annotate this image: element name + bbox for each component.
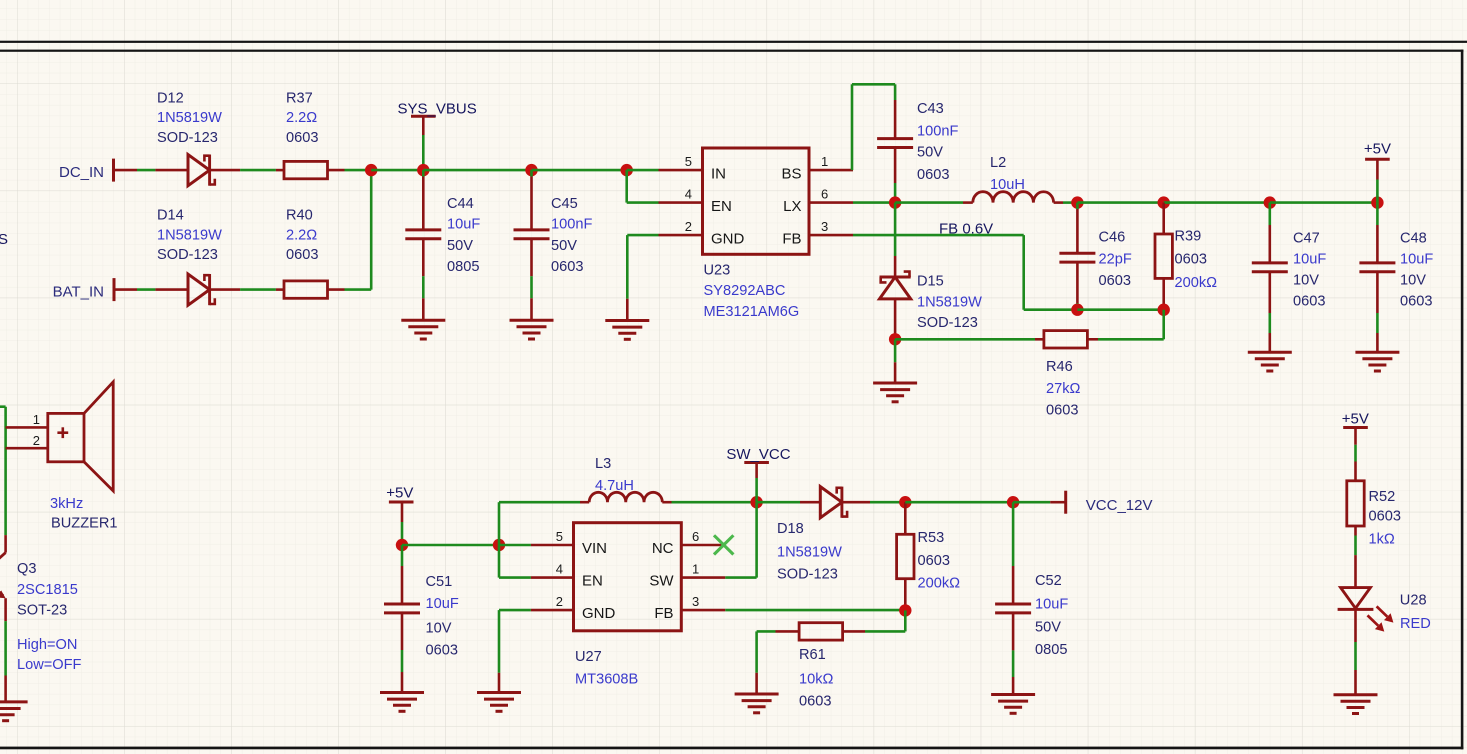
ground xyxy=(380,691,424,694)
svg-text:10uF: 10uF xyxy=(447,216,480,232)
svg-text:GND: GND xyxy=(711,230,745,247)
wire xyxy=(853,201,895,204)
svg-text:C45: C45 xyxy=(551,196,578,212)
svg-text:C51: C51 xyxy=(426,574,453,590)
wire xyxy=(627,169,659,172)
port VCC_12V xyxy=(1050,501,1066,504)
resistor R46 xyxy=(1035,338,1044,341)
svg-text:U27: U27 xyxy=(575,649,602,665)
svg-text:GND: GND xyxy=(582,605,616,622)
resistor R39 xyxy=(1162,203,1165,234)
capacitor C43 xyxy=(894,84,897,100)
svg-text:1N5819W: 1N5819W xyxy=(157,227,222,243)
wire xyxy=(137,288,155,291)
svg-text:0603: 0603 xyxy=(286,247,318,263)
wire xyxy=(895,338,1035,341)
junction xyxy=(1264,196,1276,208)
svg-text:4.7uH: 4.7uH xyxy=(595,478,634,494)
svg-text:SW_VCC: SW_VCC xyxy=(726,446,790,463)
svg-text:C46: C46 xyxy=(1099,230,1126,246)
svg-text:C43: C43 xyxy=(917,101,944,117)
svg-text:0603: 0603 xyxy=(917,167,949,183)
svg-text:1: 1 xyxy=(821,154,828,169)
net flag +5V xyxy=(1365,158,1390,161)
svg-text:10uF: 10uF xyxy=(426,596,459,612)
svg-text:1N5819W: 1N5819W xyxy=(777,544,842,560)
capacitor C46 xyxy=(1076,203,1079,209)
wire xyxy=(625,170,628,203)
svg-text:5: 5 xyxy=(556,529,563,544)
net flag SW_VCC xyxy=(744,461,769,464)
wire xyxy=(423,169,531,172)
svg-text:R61: R61 xyxy=(799,647,826,663)
svg-text:0603: 0603 xyxy=(1175,252,1207,268)
wire xyxy=(725,609,905,612)
svg-text:3: 3 xyxy=(692,594,699,609)
junction xyxy=(750,496,762,508)
capacitor C52 xyxy=(1012,502,1015,566)
svg-text:1N5819W: 1N5819W xyxy=(157,110,222,126)
svg-text:50V: 50V xyxy=(551,238,577,254)
svg-text:SW: SW xyxy=(649,573,674,590)
svg-text:SOD-123: SOD-123 xyxy=(777,567,838,583)
svg-text:6: 6 xyxy=(821,187,828,202)
svg-text:10kΩ: 10kΩ xyxy=(799,671,834,687)
ground xyxy=(605,319,649,322)
svg-text:100nF: 100nF xyxy=(917,123,958,139)
wire xyxy=(905,501,1013,504)
diode D15 xyxy=(894,203,897,256)
junction xyxy=(1071,304,1083,316)
svg-text:0603: 0603 xyxy=(1099,273,1131,289)
svg-text:U23: U23 xyxy=(704,262,731,278)
junction xyxy=(365,164,377,176)
svg-text:5: 5 xyxy=(685,154,692,169)
svg-text:4: 4 xyxy=(685,187,692,202)
wire xyxy=(499,609,531,612)
ground xyxy=(510,319,554,322)
junction xyxy=(1371,196,1383,208)
svg-text:L2: L2 xyxy=(990,155,1006,171)
svg-text:C47: C47 xyxy=(1293,230,1320,246)
svg-text:SOD-123: SOD-123 xyxy=(917,315,978,331)
transistor Q3 xyxy=(4,535,7,553)
resistor R40 xyxy=(276,288,284,291)
wire xyxy=(345,169,372,172)
svg-text:10V: 10V xyxy=(426,621,452,637)
svg-text:U28: U28 xyxy=(1400,593,1427,609)
svg-text:200kΩ: 200kΩ xyxy=(1175,275,1218,291)
svg-text:10V: 10V xyxy=(1293,273,1319,289)
svg-text:2: 2 xyxy=(556,594,563,609)
ground xyxy=(401,319,445,322)
svg-text:D14: D14 xyxy=(157,208,184,224)
wire xyxy=(345,288,372,291)
ground xyxy=(1334,693,1378,696)
svg-text:IN: IN xyxy=(711,165,726,182)
wire xyxy=(1013,501,1050,504)
svg-text:S: S xyxy=(0,231,8,248)
svg-text:EN: EN xyxy=(711,198,732,215)
svg-text:LX: LX xyxy=(783,198,801,215)
svg-text:SY8292ABC: SY8292ABC xyxy=(704,283,786,299)
svg-text:C44: C44 xyxy=(447,196,474,212)
svg-text:3: 3 xyxy=(821,219,828,234)
wire xyxy=(1164,201,1270,204)
op-amp U27 xyxy=(574,523,682,631)
svg-text:10uF: 10uF xyxy=(1293,251,1326,267)
wire xyxy=(757,501,800,504)
capacitor C44 xyxy=(422,170,425,176)
svg-text:L3: L3 xyxy=(595,456,611,472)
svg-text:SOT-23: SOT-23 xyxy=(17,603,67,619)
wire xyxy=(853,234,1024,237)
capacitor C45 xyxy=(530,170,533,176)
wire xyxy=(4,621,7,675)
net flag +5V xyxy=(389,501,414,504)
wire xyxy=(1270,201,1378,204)
wire xyxy=(532,169,627,172)
svg-text:0603: 0603 xyxy=(1293,294,1325,310)
svg-text:C48: C48 xyxy=(1400,230,1427,246)
svg-text:SYS_VBUS: SYS_VBUS xyxy=(398,100,477,117)
svg-text:2.2Ω: 2.2Ω xyxy=(286,110,317,126)
inductor L2 xyxy=(963,201,973,204)
wire xyxy=(1354,642,1357,670)
junction xyxy=(525,164,537,176)
svg-text:FB 0.6V: FB 0.6V xyxy=(939,220,993,237)
svg-text:4: 4 xyxy=(556,562,563,577)
svg-text:1N5819W: 1N5819W xyxy=(917,294,982,310)
svg-text:EN: EN xyxy=(582,573,603,590)
svg-text:VIN: VIN xyxy=(582,540,607,557)
junction xyxy=(1158,304,1170,316)
ground xyxy=(1248,351,1292,354)
ground xyxy=(0,700,28,703)
wire xyxy=(498,545,501,578)
svg-text:100nF: 100nF xyxy=(551,216,592,232)
ground xyxy=(477,691,521,694)
no-connect flag xyxy=(714,535,733,554)
junction xyxy=(1158,196,1170,208)
junction xyxy=(889,333,901,345)
svg-text:R37: R37 xyxy=(286,90,313,106)
svg-text:NC: NC xyxy=(652,540,674,557)
buzzer BUZZER1 xyxy=(6,426,48,429)
svg-text:2: 2 xyxy=(685,219,692,234)
svg-text:R53: R53 xyxy=(918,530,945,546)
wire xyxy=(1077,308,1163,311)
svg-text:2.2Ω: 2.2Ω xyxy=(286,227,317,243)
svg-text:0603: 0603 xyxy=(1400,294,1432,310)
wire xyxy=(1063,201,1077,204)
ground xyxy=(1355,351,1399,354)
junction xyxy=(899,496,911,508)
svg-text:200kΩ: 200kΩ xyxy=(918,575,961,591)
svg-text:SOD-123: SOD-123 xyxy=(157,247,218,263)
resistor R61 xyxy=(776,630,800,633)
svg-text:FB: FB xyxy=(782,230,801,247)
wire xyxy=(371,169,423,172)
svg-text:MT3608B: MT3608B xyxy=(575,672,638,688)
svg-text:+5V: +5V xyxy=(1364,140,1391,157)
junction xyxy=(621,164,633,176)
svg-text:High=ON: High=ON xyxy=(17,637,77,653)
junction xyxy=(493,539,505,551)
svg-text:BS: BS xyxy=(781,165,801,182)
junction xyxy=(396,539,408,551)
wire xyxy=(627,234,658,237)
diode D12 xyxy=(155,169,188,172)
junction xyxy=(1007,496,1019,508)
inductor L3 xyxy=(580,501,589,504)
ground xyxy=(735,693,779,696)
diode D14 xyxy=(155,288,188,291)
svg-text:50V: 50V xyxy=(1035,620,1061,636)
svg-text:1kΩ: 1kΩ xyxy=(1369,531,1395,547)
wire xyxy=(240,169,276,172)
wire xyxy=(240,288,276,291)
svg-text:6: 6 xyxy=(692,529,699,544)
svg-text:2: 2 xyxy=(33,433,40,448)
svg-text:BUZZER1: BUZZER1 xyxy=(51,516,118,532)
wire xyxy=(402,544,499,547)
svg-text:ME3121AM6G: ME3121AM6G xyxy=(704,304,800,320)
ground xyxy=(873,382,917,385)
junction xyxy=(417,164,429,176)
junction xyxy=(889,196,901,208)
wire xyxy=(0,405,6,408)
junction xyxy=(1071,196,1083,208)
svg-text:R46: R46 xyxy=(1046,359,1073,375)
svg-text:D15: D15 xyxy=(917,274,944,290)
svg-text:R39: R39 xyxy=(1175,228,1202,244)
svg-text:C52: C52 xyxy=(1035,573,1062,589)
wire xyxy=(865,630,905,633)
svg-text:2SC1815: 2SC1815 xyxy=(17,582,78,598)
svg-text:0805: 0805 xyxy=(1035,642,1067,658)
wire xyxy=(870,501,905,504)
svg-text:10uH: 10uH xyxy=(990,177,1025,193)
resistor R52 xyxy=(1354,462,1357,481)
wire xyxy=(755,631,758,672)
svg-text:VCC_12V: VCC_12V xyxy=(1086,497,1153,514)
diode D18 xyxy=(800,501,820,504)
junction xyxy=(899,604,911,616)
svg-text:SOD-123: SOD-123 xyxy=(157,130,218,146)
capacitor C47 xyxy=(1269,203,1272,225)
wire xyxy=(895,201,963,204)
resistor R37 xyxy=(276,169,284,172)
wire xyxy=(725,576,756,579)
svg-text:0603: 0603 xyxy=(551,259,583,275)
svg-text:0603: 0603 xyxy=(426,643,458,659)
capacitor C48 xyxy=(1376,203,1379,225)
svg-text:50V: 50V xyxy=(917,145,943,161)
svg-text:0603: 0603 xyxy=(286,130,318,146)
svg-text:22pF: 22pF xyxy=(1099,252,1132,268)
wire xyxy=(851,84,854,170)
svg-text:1: 1 xyxy=(33,412,40,427)
svg-text:D18: D18 xyxy=(777,521,804,537)
led U28 xyxy=(1354,555,1357,588)
svg-text:27kΩ: 27kΩ xyxy=(1046,381,1081,397)
svg-text:0603: 0603 xyxy=(918,553,950,569)
wire xyxy=(1354,536,1357,556)
svg-text:BAT_IN: BAT_IN xyxy=(53,284,104,301)
wire xyxy=(499,544,531,547)
op-amp U23 xyxy=(703,148,810,254)
svg-text:10uF: 10uF xyxy=(1400,251,1433,267)
wire xyxy=(894,339,897,362)
capacitor C51 xyxy=(401,545,404,566)
svg-text:1: 1 xyxy=(692,562,699,577)
wire xyxy=(137,169,155,172)
svg-text:Q3: Q3 xyxy=(17,561,36,577)
svg-text:RED: RED xyxy=(1400,616,1431,632)
svg-text:0805: 0805 xyxy=(447,259,479,275)
svg-text:Low=OFF: Low=OFF xyxy=(17,657,82,673)
wire xyxy=(672,501,757,504)
wire xyxy=(1077,201,1163,204)
svg-text:D12: D12 xyxy=(157,90,184,106)
svg-text:0603: 0603 xyxy=(1369,508,1401,524)
svg-text:10uF: 10uF xyxy=(1035,596,1068,612)
wire xyxy=(1098,338,1164,341)
svg-text:+5V: +5V xyxy=(1342,411,1369,428)
svg-text:R40: R40 xyxy=(286,208,313,224)
svg-text:R52: R52 xyxy=(1369,489,1396,505)
svg-text:50V: 50V xyxy=(447,238,473,254)
ground xyxy=(991,693,1035,696)
wire xyxy=(757,630,776,633)
svg-text:+5V: +5V xyxy=(386,485,413,502)
net flag +5V xyxy=(1343,426,1368,429)
resistor R53 xyxy=(904,502,907,534)
svg-text:0603: 0603 xyxy=(799,694,831,710)
svg-text:DC_IN: DC_IN xyxy=(59,164,104,181)
net flag SYS_VBUS xyxy=(411,115,436,118)
svg-text:3kHz: 3kHz xyxy=(50,496,83,512)
svg-text:10V: 10V xyxy=(1400,273,1426,289)
svg-text:0603: 0603 xyxy=(1046,403,1078,419)
svg-text:FB: FB xyxy=(654,605,673,622)
